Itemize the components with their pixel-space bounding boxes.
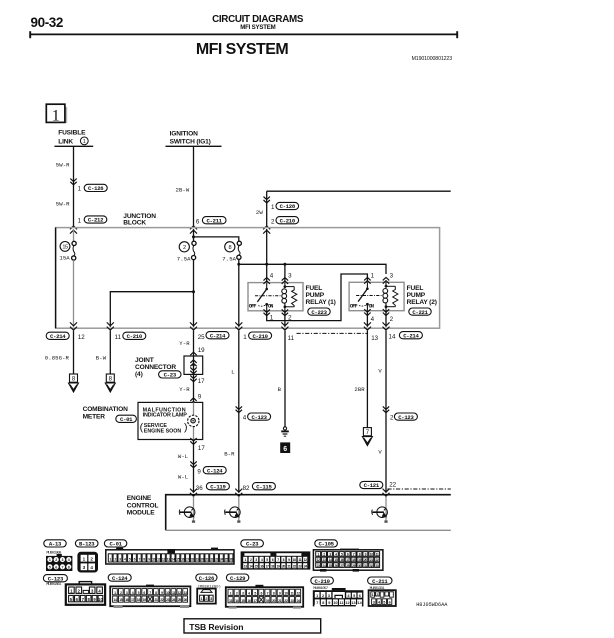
svg-text:B-123: B-123 — [79, 541, 95, 548]
svg-text:MFI SYSTEM: MFI SYSTEM — [196, 41, 289, 58]
wire rail to relay1 pin 3 — [284, 264, 286, 282]
svg-text:JOINT: JOINT — [135, 357, 154, 364]
joint connector mark top — [190, 352, 196, 355]
connector C-121 oval — [360, 481, 383, 489]
wire 2W feed vertical — [266, 191, 268, 226]
svg-text:ON: ON — [369, 303, 374, 309]
svg-text:C-223: C-223 — [311, 309, 327, 316]
svg-text:16: 16 — [181, 558, 184, 562]
svg-text:17: 17 — [131, 598, 135, 602]
svg-text:4: 4 — [371, 316, 375, 323]
wire pin12 to ground 8 — [73, 331, 75, 374]
connector label C-126 — [196, 574, 217, 582]
svg-text:1: 1 — [83, 556, 86, 561]
svg-text:19: 19 — [358, 558, 361, 562]
svg-text:BLOCK: BLOCK — [123, 220, 146, 227]
junction node fuse branch — [192, 235, 195, 238]
connector body C-124 — [110, 585, 190, 608]
svg-text:29: 29 — [352, 564, 355, 568]
svg-text:C-210: C-210 — [314, 578, 330, 585]
service engine soon label — [140, 421, 188, 434]
svg-text:31: 31 — [364, 564, 367, 568]
connector C-211 — [202, 217, 226, 225]
connector C-123 oval (pin 2) — [394, 413, 417, 421]
svg-text:(4): (4) — [135, 371, 143, 378]
svg-text:19: 19 — [196, 558, 199, 562]
relay2 pin4 connector mark — [364, 309, 370, 312]
connector body C-129 — [226, 585, 303, 609]
meter internal wire — [193, 402, 195, 439]
svg-text:15: 15 — [176, 558, 179, 562]
svg-text:16: 16 — [340, 558, 343, 562]
svg-text:W-L: W-L — [178, 473, 188, 480]
junction node relay rail — [237, 263, 240, 266]
ECM entry arrows (pin 82) — [235, 493, 242, 496]
svg-text:2: 2 — [390, 316, 394, 323]
svg-text:10: 10 — [98, 597, 103, 602]
svg-text:15: 15 — [255, 564, 258, 568]
connector mark C-128 — [264, 197, 270, 200]
connector body A-13 — [46, 554, 72, 571]
svg-text:3: 3 — [328, 594, 330, 598]
svg-text:MODULE: MODULE — [127, 510, 155, 517]
svg-text:V: V — [378, 449, 382, 456]
connector label C-211 — [368, 577, 392, 585]
joint connector label — [135, 357, 176, 378]
fuse 2 — [192, 241, 196, 245]
svg-text:19: 19 — [143, 598, 147, 602]
joint connector box C-23 — [184, 356, 203, 374]
wire fuse 2 down — [193, 260, 195, 327]
connector label C-210 — [311, 577, 334, 585]
svg-text:22: 22 — [389, 481, 396, 488]
svg-text:1: 1 — [316, 594, 318, 598]
connector C-210 (pin 11) — [123, 332, 146, 340]
svg-text:17: 17 — [198, 445, 205, 452]
svg-text:METER: METER — [83, 413, 106, 420]
svg-text:15: 15 — [62, 245, 68, 251]
svg-text:15: 15 — [334, 558, 337, 562]
svg-text:33: 33 — [376, 564, 379, 568]
ECM entry arrows (pin 22) — [383, 493, 390, 496]
svg-text:12: 12 — [317, 558, 320, 562]
svg-text:C-123: C-123 — [398, 414, 414, 421]
junction block entry arrows (ignition) — [190, 226, 197, 229]
svg-text:14: 14 — [249, 564, 252, 568]
svg-text:0.85G-R: 0.85G-R — [45, 354, 70, 361]
relay1 pin1 connector mark — [264, 309, 270, 312]
connector C-210 top — [276, 217, 299, 225]
svg-text:C-01: C-01 — [120, 416, 133, 423]
svg-text:25: 25 — [178, 598, 182, 602]
svg-text:17: 17 — [186, 558, 189, 562]
svg-text:23: 23 — [166, 598, 170, 602]
engine control module label — [127, 495, 159, 517]
svg-text:11: 11 — [291, 591, 294, 595]
connector C-124 oval — [203, 467, 226, 475]
svg-text:C-123: C-123 — [48, 575, 64, 582]
connector label C-01 — [104, 540, 126, 548]
svg-text:2: 2 — [271, 218, 275, 225]
fuel pump relay 1 label — [306, 285, 336, 306]
svg-text:16: 16 — [247, 599, 251, 603]
svg-text:C-01: C-01 — [109, 541, 122, 548]
svg-text:22: 22 — [160, 598, 164, 602]
ground number 6 box — [280, 442, 290, 453]
connector label C-129 — [226, 574, 248, 582]
connector mark C-123 (pin4) — [236, 406, 242, 409]
ECM driver transistor 2 — [225, 497, 241, 523]
svg-text:C-23: C-23 — [164, 372, 177, 379]
svg-text:17: 17 — [254, 599, 258, 603]
connector body C-105 — [313, 549, 383, 572]
svg-text:C-221: C-221 — [412, 309, 428, 316]
wire fuse 8 down — [238, 259, 240, 326]
connector label C-23 — [241, 540, 264, 548]
wire pin14 down to ECM — [385, 331, 387, 493]
relay2 pin2 connector mark — [383, 309, 389, 312]
svg-text:25: 25 — [328, 564, 331, 568]
svg-text:12: 12 — [345, 601, 349, 605]
svg-text:5: 5 — [49, 565, 51, 569]
svg-text:13: 13 — [244, 564, 247, 568]
svg-text:10: 10 — [166, 591, 170, 595]
connector mark C-123 (pin2) — [383, 406, 389, 409]
indicator lamp — [188, 415, 199, 426]
section box 1 — [46, 104, 67, 124]
svg-text:10: 10 — [370, 553, 373, 557]
svg-text:23: 23 — [290, 599, 294, 603]
svg-text:2: 2 — [390, 414, 394, 421]
svg-text:IGNITION: IGNITION — [170, 130, 198, 137]
svg-text:13: 13 — [184, 591, 188, 595]
svg-text:17: 17 — [346, 558, 349, 562]
svg-text:19: 19 — [198, 347, 205, 354]
junction block entry arrows (2W) — [263, 226, 270, 229]
svg-text:MFI SYSTEM: MFI SYSTEM — [240, 24, 275, 31]
svg-text:22: 22 — [376, 558, 379, 562]
connector C-119 oval — [206, 483, 229, 491]
connector body C-126 — [197, 589, 216, 604]
svg-text:4: 4 — [68, 558, 70, 562]
svg-text:13: 13 — [351, 601, 355, 605]
svg-text:12: 12 — [178, 591, 182, 595]
svg-text:9: 9 — [197, 469, 201, 476]
svg-text:SWITCH (IG1): SWITCH (IG1) — [170, 139, 211, 146]
connector C-214 (pin 12) — [46, 332, 69, 340]
svg-text:13: 13 — [323, 558, 326, 562]
svg-text:C-124: C-124 — [112, 575, 128, 582]
fuse 15 rating circle — [60, 242, 70, 252]
svg-text:2: 2 — [55, 558, 57, 562]
svg-text:5: 5 — [353, 594, 355, 598]
svg-text:15: 15 — [241, 599, 245, 603]
svg-text:20: 20 — [364, 558, 367, 562]
ignition switch label — [166, 130, 222, 146]
svg-text:M1901000801223: M1901000801223 — [412, 56, 453, 62]
wire fuse 15 to bottom — [73, 260, 75, 327]
svg-text:C-126: C-126 — [88, 185, 104, 192]
junction node 2W/pin4 — [265, 263, 268, 266]
svg-text:2: 2 — [183, 245, 186, 251]
svg-text:3: 3 — [210, 597, 212, 601]
svg-text:MU801861: MU801861 — [46, 583, 62, 587]
svg-text:22: 22 — [284, 599, 288, 603]
svg-text:18: 18 — [271, 564, 274, 568]
fuel pump relay 2 label — [407, 285, 437, 306]
svg-text:8: 8 — [68, 565, 70, 569]
connector label A-13 — [44, 540, 66, 548]
svg-text:8: 8 — [322, 601, 324, 605]
ground 7 — [363, 428, 371, 436]
svg-text:14: 14 — [172, 558, 175, 562]
combination meter label — [83, 406, 128, 420]
svg-text:26: 26 — [334, 564, 337, 568]
connector label C-123 — [43, 575, 67, 583]
svg-text:C-214: C-214 — [210, 332, 226, 339]
wire relay1 pin2 down — [284, 311, 286, 327]
svg-text:7: 7 — [62, 565, 64, 569]
wire relay2 pin4 down — [366, 311, 368, 327]
svg-text:Y-R: Y-R — [179, 386, 190, 393]
svg-text:11: 11 — [288, 335, 295, 342]
svg-text:RELAY (2): RELAY (2) — [407, 299, 437, 306]
junction block exit arrows (pin 13) — [364, 327, 371, 330]
svg-text:14: 14 — [389, 333, 396, 340]
connector body C-211 — [369, 590, 396, 606]
svg-text:18: 18 — [352, 558, 355, 562]
svg-text:COMBINATION: COMBINATION — [83, 406, 128, 413]
svg-text:19: 19 — [266, 599, 270, 603]
svg-text:11: 11 — [298, 558, 301, 562]
wire 2W to relay1 pin 4 — [266, 229, 268, 283]
svg-text:1: 1 — [371, 272, 375, 279]
junction block box — [56, 228, 440, 329]
svg-text:14: 14 — [113, 598, 117, 602]
svg-text:2: 2 — [376, 593, 378, 597]
svg-text:): ) — [184, 421, 188, 433]
svg-text:21: 21 — [287, 564, 290, 568]
connector C-115 oval — [252, 483, 275, 491]
fuel pump relay 1 box — [248, 283, 303, 311]
chassis ground 6 — [281, 427, 289, 436]
svg-text:1: 1 — [83, 139, 86, 145]
svg-text:5W-R: 5W-R — [56, 162, 70, 169]
svg-text:90-32: 90-32 — [31, 15, 64, 30]
svg-text:11: 11 — [115, 334, 122, 341]
svg-text:21: 21 — [278, 599, 282, 603]
wire ignition feed inside block — [193, 229, 195, 241]
svg-text:B: B — [278, 386, 282, 393]
svg-text:6: 6 — [389, 600, 391, 604]
svg-text:5: 5 — [383, 600, 385, 604]
svg-text:1: 1 — [78, 186, 82, 193]
svg-text:24: 24 — [297, 599, 301, 603]
svg-text:4: 4 — [243, 414, 247, 421]
fuse 2 rating circle — [179, 242, 189, 252]
fuse 8 — [237, 241, 241, 245]
svg-text:26: 26 — [230, 558, 233, 562]
connector body C-01 — [106, 548, 234, 564]
joint connector center dot — [192, 364, 194, 366]
svg-text:C-115: C-115 — [256, 483, 272, 490]
connector label C-105 — [315, 540, 338, 548]
svg-text:13: 13 — [229, 599, 233, 603]
svg-text:B-R: B-R — [224, 450, 235, 457]
svg-text:18: 18 — [191, 558, 194, 562]
svg-text:3: 3 — [83, 565, 86, 570]
relay1 pin2 connector mark — [282, 309, 288, 312]
joint connector mark inside top — [190, 360, 196, 363]
connector C-212 — [84, 216, 107, 224]
ECM entry arrows (pin 36) — [190, 493, 197, 496]
junction node relay1 pin3 — [283, 263, 286, 266]
svg-text:6: 6 — [196, 218, 200, 225]
svg-text:14: 14 — [328, 558, 331, 562]
connector C-123 oval (pin 4) — [248, 413, 271, 421]
svg-text:21: 21 — [370, 558, 373, 562]
svg-text:7.5A: 7.5A — [177, 255, 191, 262]
svg-text:1: 1 — [78, 217, 82, 224]
svg-text:TSB Revision: TSB Revision — [189, 622, 243, 632]
svg-text:24: 24 — [172, 598, 176, 602]
svg-text:C-123: C-123 — [251, 414, 267, 421]
wire into fuse 15 — [73, 229, 75, 241]
relay1 pin3 connector mark — [282, 278, 288, 281]
svg-text:24: 24 — [323, 564, 326, 568]
dash-dot line at ECM top — [387, 488, 450, 490]
svg-text:10: 10 — [284, 591, 288, 595]
svg-text:C-23: C-23 — [246, 541, 259, 548]
svg-text:L: L — [231, 369, 234, 376]
svg-text:6: 6 — [55, 565, 57, 569]
svg-text:12: 12 — [297, 591, 301, 595]
junction block exit arrows (pin 11) — [107, 327, 114, 330]
svg-text:22: 22 — [293, 564, 296, 568]
connector body B-123 — [77, 552, 98, 573]
wire pin1 C-210 down to ECM — [238, 331, 240, 493]
svg-text:22: 22 — [210, 558, 213, 562]
svg-text:OFF: OFF — [350, 303, 358, 309]
relay 1 internals — [266, 283, 268, 289]
joint connector mark below box — [190, 375, 196, 378]
combination meter box — [138, 402, 203, 439]
svg-text:17: 17 — [266, 564, 269, 568]
svg-text:24: 24 — [304, 564, 307, 568]
svg-text:6: 6 — [283, 446, 287, 453]
svg-text:C-126: C-126 — [199, 575, 215, 582]
svg-text:16: 16 — [260, 564, 263, 568]
wire pin13 to ground 7 — [366, 331, 368, 428]
wire relay2 pin2 down — [385, 311, 387, 327]
wire 2W feed horizontal — [267, 190, 451, 192]
junction block exit arrows (pin 12) — [70, 327, 77, 330]
svg-text:4: 4 — [90, 565, 93, 570]
svg-text:2: 2 — [90, 556, 93, 561]
engine control module box — [166, 495, 451, 531]
svg-text:8: 8 — [228, 245, 231, 251]
svg-text:25: 25 — [225, 558, 228, 562]
svg-text:FUSIBLE: FUSIBLE — [58, 129, 86, 136]
svg-text:C-119: C-119 — [210, 483, 226, 490]
svg-text:18: 18 — [137, 598, 141, 602]
svg-text:A-13: A-13 — [49, 541, 62, 548]
svg-text:25: 25 — [198, 334, 205, 341]
svg-text:20: 20 — [282, 564, 285, 568]
svg-text:12: 12 — [162, 558, 165, 562]
connector label B-123 — [75, 540, 98, 548]
wire meter to ECM — [193, 440, 195, 493]
svg-text:13: 13 — [371, 335, 378, 342]
svg-text:4: 4 — [270, 272, 274, 279]
svg-text:ENGINE SOON: ENGINE SOON — [144, 428, 182, 434]
connector C-128 — [276, 202, 299, 210]
header rule — [30, 31, 457, 38]
wire joint connector to meter — [193, 374, 195, 402]
svg-text:5W-R: 5W-R — [56, 200, 70, 207]
svg-text:24: 24 — [220, 558, 223, 562]
svg-text:1: 1 — [200, 597, 202, 601]
svg-text:23: 23 — [317, 564, 320, 568]
svg-text:1: 1 — [243, 334, 247, 341]
svg-text:3: 3 — [390, 272, 394, 279]
svg-text:11: 11 — [376, 553, 379, 557]
relay 2 internals — [366, 282, 368, 288]
wire pin25 to joint connector — [193, 331, 195, 356]
wire branch to fuse 8 — [194, 237, 239, 241]
svg-text:26: 26 — [184, 598, 188, 602]
svg-text:10: 10 — [293, 558, 296, 562]
svg-text:C-214: C-214 — [403, 332, 419, 339]
relay1 pin4 connector mark — [264, 278, 270, 281]
svg-text:15A: 15A — [59, 254, 70, 261]
svg-text:6: 6 — [359, 594, 361, 598]
junction block exit arrows (pin 11b) — [281, 327, 288, 330]
svg-text:C-214: C-214 — [50, 333, 66, 340]
connector body C-210 — [313, 588, 364, 607]
svg-text:3: 3 — [288, 272, 292, 279]
svg-text:2BR: 2BR — [354, 386, 365, 393]
fuse 8 rating circle — [225, 242, 235, 252]
svg-text:36: 36 — [196, 485, 203, 492]
svg-text:20: 20 — [201, 558, 204, 562]
ground 8 (left) — [70, 374, 78, 382]
svg-text:RELAY (1): RELAY (1) — [306, 299, 336, 306]
junction block exit arrows (pin 25) — [190, 327, 197, 330]
svg-text:H8J05WD6AA: H8J05WD6AA — [416, 602, 448, 608]
svg-text:1: 1 — [49, 558, 51, 562]
joint connector mark inside bottom — [190, 367, 196, 370]
junction block entry arrows (fusible link) — [70, 226, 77, 229]
svg-text:1: 1 — [52, 108, 60, 125]
svg-text:9: 9 — [328, 601, 330, 605]
svg-text:27: 27 — [340, 564, 343, 568]
wire ignition switch to junction block — [193, 147, 195, 226]
connector body C-123 — [66, 582, 105, 605]
connector C-221 — [409, 308, 431, 316]
svg-text:1: 1 — [372, 593, 374, 597]
svg-text:11: 11 — [172, 591, 175, 595]
connector C-210 (pin 1) — [249, 332, 272, 340]
connector body C-23 — [241, 551, 311, 569]
svg-text:82: 82 — [243, 485, 250, 492]
svg-text:32: 32 — [370, 564, 373, 568]
svg-text:V: V — [378, 368, 382, 375]
joint connector internal wire — [193, 356, 195, 374]
svg-text:C-210: C-210 — [252, 333, 268, 340]
TSB Revision box — [184, 619, 321, 633]
connector mark C-124 — [190, 461, 196, 464]
